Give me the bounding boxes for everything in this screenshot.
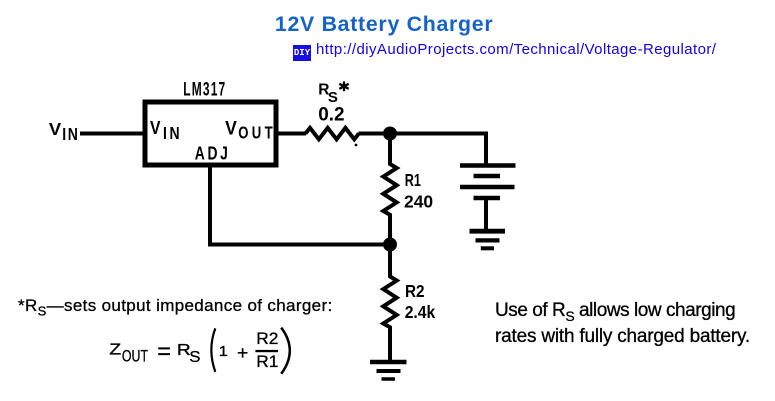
- svg-text:IN: IN: [62, 125, 79, 144]
- ground battery: [470, 231, 506, 248]
- svg-text:OUT: OUT: [238, 124, 276, 143]
- regulator U1 LM317 box: [145, 102, 276, 165]
- note: use of RS: [495, 298, 750, 349]
- label VIN input terminal: [49, 119, 80, 144]
- svg-text:=: =: [157, 338, 171, 364]
- svg-text:R2: R2: [405, 281, 425, 301]
- pin label VIN: [150, 117, 182, 144]
- svg-text:ADJ: ADJ: [195, 144, 231, 164]
- svg-text:R1: R1: [405, 171, 421, 191]
- wire input lead to regulator: [80, 132, 145, 136]
- svg-text:R2: R2: [256, 329, 278, 348]
- svg-text:V: V: [150, 117, 161, 139]
- svg-text:R1: R1: [256, 353, 278, 372]
- svg-text:S: S: [189, 349, 200, 367]
- svg-text:+: +: [237, 344, 248, 364]
- DIY icon badge: [293, 45, 311, 61]
- speck artifact: [355, 144, 358, 147]
- svg-text:2.4k: 2.4k: [405, 302, 436, 322]
- resistor RS zigzag: [306, 128, 359, 139]
- svg-text:OUT: OUT: [122, 348, 148, 366]
- svg-text:0.2: 0.2: [318, 104, 344, 125]
- battery BT1: [460, 166, 516, 232]
- wire node A to battery: [390, 134, 486, 168]
- resistor R2 with leads: [383, 245, 396, 361]
- note: RS sets output impedance: [18, 296, 333, 316]
- wire VOUT to resistor RS: [276, 132, 306, 136]
- svg-text:IN: IN: [163, 125, 182, 144]
- svg-text:Z: Z: [109, 340, 121, 358]
- svg-text:240: 240: [404, 191, 433, 211]
- wire RS to node A: [359, 132, 391, 136]
- ground R2: [370, 362, 407, 379]
- link url: [316, 41, 716, 58]
- wire ADJ pin to node B: [210, 166, 390, 245]
- svg-text:V: V: [49, 119, 61, 139]
- label RS*: [318, 81, 348, 106]
- svg-text:1: 1: [219, 344, 228, 360]
- node A junction dot: [383, 127, 397, 141]
- title: [275, 12, 493, 37]
- node B junction dot: [383, 238, 397, 252]
- svg-text:LM317: LM317: [183, 80, 226, 100]
- resistor R1 with leads: [383, 134, 396, 245]
- svg-text:V: V: [225, 117, 237, 139]
- pin label VOUT: [225, 117, 276, 144]
- formula ZOUT = RS (1 + R2/R1): [109, 328, 290, 374]
